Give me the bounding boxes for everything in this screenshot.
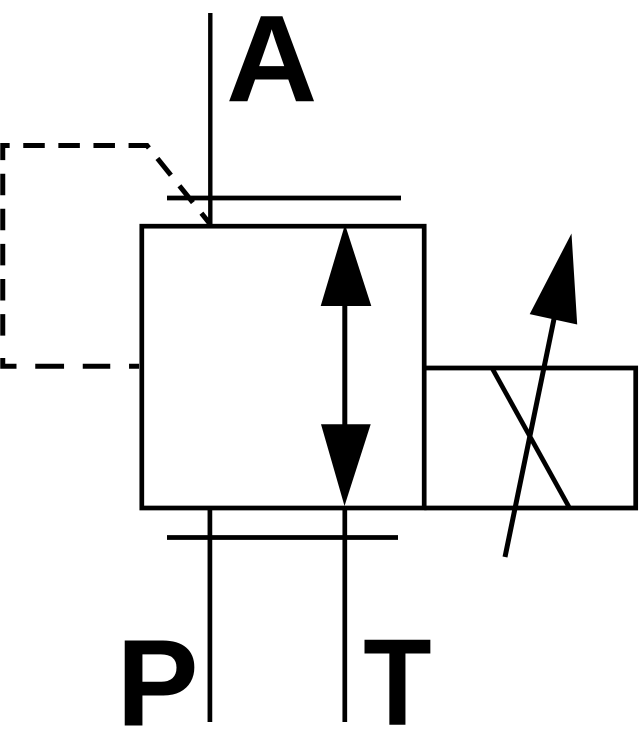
port line T (wire)	[342, 508, 347, 722]
adjustment arrow	[505, 234, 577, 558]
svg-text:T: T	[363, 615, 431, 752]
port line A (wire)	[208, 13, 212, 228]
proportional solenoid box	[424, 368, 636, 508]
svg-text:P: P	[117, 616, 199, 753]
svg-text:A: A	[226, 0, 317, 128]
flow arrow (double-headed, inside valve body)	[321, 225, 372, 507]
valve body U1 (main square)	[142, 226, 424, 508]
pilot line (dashed), lower run to valve body	[3, 358, 140, 366]
solenoid diagonal	[492, 368, 569, 507]
lower port cross line (wire)	[167, 535, 398, 540]
upper port cross line (wire)	[167, 196, 401, 201]
port line P (wire)	[208, 508, 213, 722]
pilot line (dashed), upper run	[3, 146, 211, 344]
